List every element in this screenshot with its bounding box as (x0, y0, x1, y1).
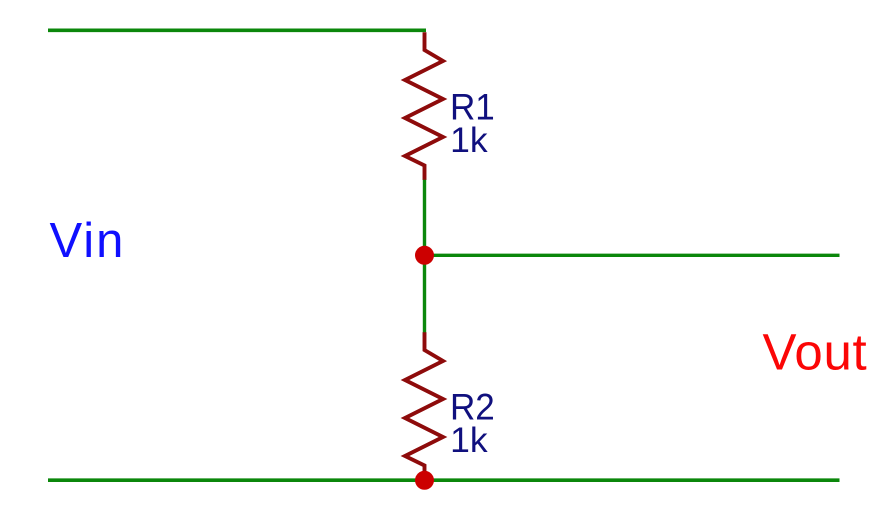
svg-text:Vout: Vout (763, 324, 868, 381)
svg-text:1k: 1k (450, 121, 488, 160)
resistor R2 (405, 332, 443, 480)
junction node A (415, 246, 434, 265)
wire top Vin rail (48, 28, 426, 32)
junction node B (bottom rail) (415, 471, 434, 490)
wire bottom ground rail (48, 478, 840, 482)
wire R1 bottom to node A (423, 180, 426, 256)
resistor R1 (405, 32, 443, 180)
svg-text:Vin: Vin (50, 214, 126, 268)
svg-text:1k: 1k (450, 421, 488, 460)
wire node A to R2 top (423, 255, 426, 333)
wire node A to Vout rail (425, 254, 840, 257)
